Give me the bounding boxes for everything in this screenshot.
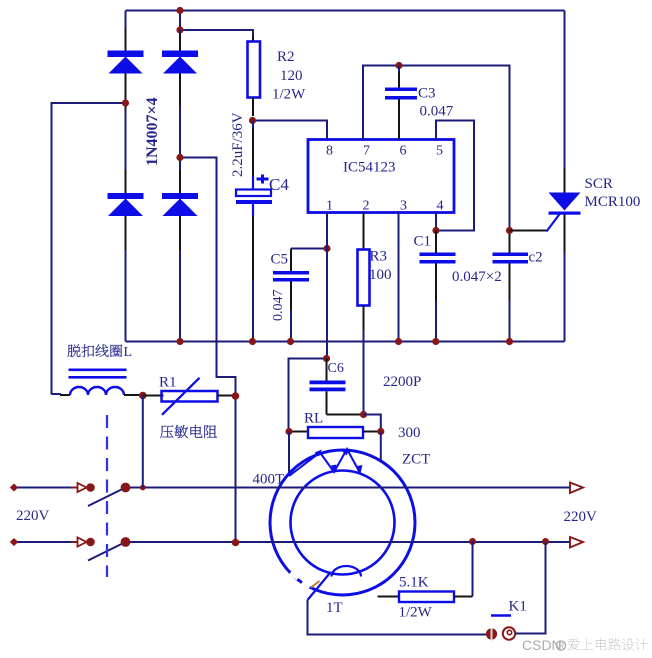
wire 1T lead	[308, 600, 487, 635]
svg-text:IC54123: IC54123	[343, 160, 396, 176]
node rail C1	[432, 338, 439, 345]
svg-text:300: 300	[398, 425, 421, 441]
label varistor	[160, 425, 217, 438]
capacitor C4	[236, 121, 272, 342]
terminal diamond L	[10, 484, 18, 492]
label R3 value	[369, 249, 392, 284]
winding 1T bump	[332, 566, 362, 577]
wire 1T diagonal	[308, 574, 330, 601]
svg-text:2: 2	[363, 199, 370, 214]
svg-text:ZCT: ZCT	[402, 452, 430, 468]
node RL right	[377, 428, 384, 435]
linkage dashed line	[106, 415, 108, 577]
wire coil tap down	[142, 396, 144, 488]
svg-text:C4: C4	[269, 175, 289, 194]
node C5 pin1 junction	[323, 245, 330, 252]
label C3 value	[418, 86, 454, 120]
node R1 N junction	[232, 539, 240, 547]
svg-text:R2: R2	[277, 49, 295, 65]
arrow N left	[78, 538, 87, 547]
wire pin4 stub	[435, 213, 437, 231]
svg-text:R: R	[559, 642, 565, 651]
svg-text:3: 3	[400, 199, 407, 214]
inductor trip coil	[52, 387, 143, 395]
node 5.1K N junction	[469, 538, 476, 545]
contact K1 left blob	[486, 628, 497, 641]
svg-text:2.2uF/36V: 2.2uF/36V	[230, 112, 246, 177]
capacitor C3	[385, 66, 417, 140]
wire pin5 hook to pin4	[436, 121, 474, 231]
svg-text:c2: c2	[529, 250, 543, 266]
node C3 top junction	[395, 62, 402, 69]
wire second rail to R2	[180, 11, 253, 42]
arrow L right	[570, 483, 583, 494]
wire bridge right AC tap down	[180, 158, 236, 543]
wire winding right lead	[380, 432, 382, 461]
wire 1T orange mark	[311, 581, 320, 588]
capacitor C5	[273, 249, 327, 342]
svg-text:220V: 220V	[16, 508, 50, 524]
wire pin1 riser	[326, 213, 328, 359]
resistor R3	[358, 213, 370, 415]
svg-text:K1: K1	[509, 599, 527, 615]
node top rail junction	[176, 7, 183, 14]
resistor 5.1K	[378, 542, 473, 603]
node rail C4	[249, 338, 256, 345]
svg-text:1/2W: 1/2W	[399, 605, 433, 621]
node C6 top junction	[323, 355, 330, 362]
wire coil to R1	[143, 395, 164, 397]
coil core bars	[69, 369, 127, 379]
ic pin numbers bottom	[326, 199, 444, 214]
wire bridge left column	[125, 11, 127, 342]
winding 400T zigzag	[289, 449, 360, 476]
wire SCR anode column	[564, 11, 566, 193]
varistor R1	[162, 378, 236, 415]
wire winding left lead	[288, 432, 290, 473]
wire C6 top hook	[289, 359, 328, 432]
decorative dash gaps handled: outer ring lower-left breaks	[291, 573, 310, 588]
capacitor C1	[420, 231, 456, 342]
wire pin3 riser	[398, 213, 400, 342]
label trip coil	[68, 344, 133, 360]
svg-text:CSDN: CSDN	[522, 637, 562, 653]
svg-text:0.047: 0.047	[420, 104, 454, 120]
node c2 gate junction	[506, 227, 513, 234]
svg-text:6: 6	[400, 144, 407, 159]
wire bridge left output to coil	[52, 103, 126, 395]
svg-text:RL: RL	[304, 411, 323, 427]
node coil R1 junction	[139, 392, 147, 400]
diode D3	[108, 193, 144, 216]
switch K1 mark	[491, 614, 511, 617]
svg-text:C6: C6	[328, 361, 344, 376]
winding arrowheads	[315, 449, 363, 474]
wire gate	[510, 214, 561, 232]
svg-text:1N4007×4: 1N4007×4	[144, 97, 161, 166]
svg-text:C5: C5	[271, 252, 289, 268]
capacitor c2	[493, 234, 529, 342]
svg-text:4: 4	[437, 199, 444, 214]
wire phase L line	[14, 487, 570, 489]
arrow N right	[570, 537, 583, 548]
switch S2	[86, 537, 130, 560]
node rail bridge	[176, 338, 183, 345]
node rail c2	[506, 338, 513, 345]
svg-text:1: 1	[326, 199, 333, 214]
resistor R2	[248, 42, 261, 117]
wire phase N line	[14, 541, 570, 543]
terminal diamond N	[10, 538, 18, 546]
wire SCR cathode to rail	[564, 215, 566, 342]
label R2 value	[272, 49, 306, 103]
switch S1	[86, 483, 130, 506]
svg-text:R3: R3	[370, 249, 388, 265]
node rail pin3	[395, 338, 402, 345]
watermark at symbol	[503, 627, 515, 639]
svg-text:5: 5	[436, 144, 443, 159]
node bridge left junction	[122, 99, 129, 106]
svg-text:MCR100: MCR100	[585, 194, 641, 210]
resistor RL	[289, 427, 381, 438]
scr MCR100	[549, 193, 581, 215]
node C6 R3 junction	[360, 411, 367, 418]
svg-text:C3: C3	[418, 86, 436, 102]
svg-text:R1: R1	[159, 375, 177, 391]
svg-text:0.047×2: 0.047×2	[452, 269, 502, 285]
node bridge right junction	[176, 154, 183, 161]
ic IC54123 box	[308, 140, 454, 213]
label SCR MCR100	[585, 176, 641, 210]
svg-text:1T: 1T	[326, 600, 343, 616]
node pin4 junction	[432, 227, 439, 234]
node second rail junction	[176, 26, 183, 33]
transformer ZCT outer ring	[270, 450, 415, 595]
svg-text:5.1K: 5.1K	[399, 575, 429, 591]
diode D4	[162, 193, 198, 216]
svg-text:400T: 400T	[253, 472, 285, 488]
wire R2 bottom to pin 8	[253, 118, 327, 140]
svg-text:100: 100	[369, 267, 392, 283]
wire top rail	[126, 10, 565, 12]
svg-text:8: 8	[326, 144, 333, 159]
svg-text:1/2W: 1/2W	[272, 87, 306, 103]
node K1 N junction	[542, 538, 549, 545]
node coil tap	[140, 485, 146, 491]
node R1 right junction	[232, 392, 240, 400]
node RL left	[285, 428, 292, 435]
svg-text:7: 7	[363, 144, 370, 159]
svg-text:220V: 220V	[564, 509, 598, 525]
wire bridge right column	[179, 30, 181, 342]
svg-text:SCR: SCR	[585, 176, 613, 192]
wire pin7 riser and vcc rail	[363, 66, 510, 229]
svg-text:0.047: 0.047	[271, 290, 286, 322]
svg-text:2200P: 2200P	[383, 374, 421, 390]
wire RL right hook	[364, 415, 381, 432]
ic pin numbers top	[326, 144, 443, 159]
diode D1	[108, 51, 144, 74]
node rail C5	[287, 338, 294, 345]
diode D2	[162, 51, 198, 74]
node R2 C4 junction	[249, 117, 256, 124]
capacitor C6	[310, 359, 364, 415]
wire K1 to N	[516, 542, 546, 634]
svg-text:L: L	[124, 345, 133, 360]
watermark text	[522, 637, 647, 653]
transformer ZCT inner ring	[291, 471, 395, 575]
svg-text:C1: C1	[414, 234, 432, 250]
wire ground rail	[126, 341, 565, 343]
arrow L left	[78, 483, 87, 492]
svg-text:120: 120	[280, 68, 303, 84]
